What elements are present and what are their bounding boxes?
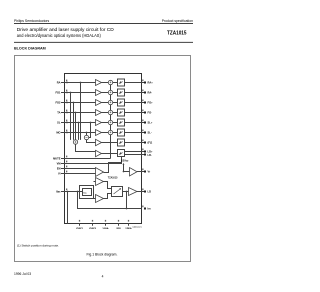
svg-text:(F)1: (F)1: [148, 141, 153, 145]
output stage box row 3: [118, 99, 125, 106]
svg-text:LD: LD: [148, 190, 152, 194]
pin square row 7: [144, 142, 146, 144]
input pin line row 2 (FO1): [61, 92, 96, 94]
op-amp triangle row 1: [96, 80, 102, 86]
svg-text:(1) Switch position during mu: (1) Switch position during mute.: [17, 244, 59, 248]
wire circle to output stage row 5: [113, 122, 118, 124]
wire box to pin row 1: [125, 82, 145, 84]
output stage box row 5: [118, 119, 125, 126]
svg-text:MBK615: MBK615: [133, 226, 143, 229]
wire T4 input stub: [93, 198, 96, 200]
op-amp T4 (monitor amp): [96, 195, 104, 203]
input pin line row 5 (SL): [61, 122, 96, 124]
wire switch to output amp T5: [123, 191, 129, 193]
op-amp T3 (laser error amp): [96, 178, 104, 186]
svg-text:VSSA: VSSA: [103, 227, 109, 230]
svg-text:VDD: VDD: [116, 228, 121, 230]
supply pin VSSP2: [92, 224, 94, 226]
wire: row 1 drop to summing circle A: [80, 83, 82, 140]
svg-text:TZA1015: TZA1015: [108, 176, 118, 179]
svg-text:FO1: FO1: [55, 91, 61, 95]
pin square row 3: [144, 102, 146, 104]
switch arrowhead: [119, 188, 121, 190]
wire box to pin row 7: [125, 142, 145, 144]
IC block TZA1015 outline: [65, 74, 142, 224]
supply pin VDD: [118, 224, 120, 226]
wire triangle to gain circle row 1: [102, 82, 109, 84]
output stage box row 2: [118, 89, 125, 96]
pin square row 6: [144, 132, 146, 134]
gain-control circle row 4: [108, 110, 112, 114]
svg-text:MO: MO: [56, 131, 60, 135]
wire circle to output stage row 4: [113, 112, 118, 114]
junction dot T2 input: [123, 171, 125, 173]
summing circle A: [73, 140, 77, 144]
tee junction dot row 4: [75, 112, 77, 114]
laser regulator outer loop: [80, 186, 94, 199]
junction dot row5 right tee: [90, 122, 92, 124]
op-amp triangle row 6: [96, 130, 102, 136]
supply pin VSSA: [105, 224, 107, 226]
svg-text:RA+: RA+: [148, 81, 154, 85]
svg-text:Vl: Vl: [58, 172, 61, 176]
tee junction dot row 5: [78, 122, 80, 124]
gain-control circle row 1: [108, 80, 112, 84]
input pin line row 1 (RA): [61, 82, 96, 84]
wire current-sense feedback down: [78, 192, 142, 209]
pin number inside row 2: [66, 90, 67, 92]
wire row5 tee down to circle B: [89, 123, 91, 138]
header rule bottom: [14, 41, 193, 44]
op-amp triangle row 5: [96, 120, 102, 126]
header rule top: [14, 22, 193, 25]
gain control bus (vertical through circles): [110, 85, 112, 159]
supply pin VDDA: [128, 224, 130, 226]
wire box to pin row 4: [125, 112, 145, 114]
output stage box row 7: [118, 139, 125, 146]
wire MUTE pin to gain bus: [61, 158, 111, 160]
wire box to pin row 3: [125, 102, 145, 104]
svg-text:VDDA: VDDA: [125, 227, 132, 230]
wire box to pin row 5: [125, 122, 145, 124]
op-amp triangle row 4: [96, 110, 102, 116]
wire: row 2 drop to summing circle A: [70, 93, 72, 140]
laser box: [83, 189, 92, 196]
svg-text:TA: TA: [57, 111, 60, 115]
svg-text:VSSP1: VSSP1: [76, 228, 84, 230]
wire T1 output to half-VDD node: [104, 163, 122, 173]
svg-text:FO2: FO2: [55, 101, 61, 105]
wire circle B to driver row 7: [87, 140, 96, 143]
gain-control circle row 6: [108, 130, 112, 134]
pin square row 4: [144, 112, 146, 114]
svg-text:SL+: SL+: [148, 121, 153, 125]
wire circle to output stage row 3: [113, 102, 118, 104]
svg-text:Drive amplifier and laser supp: Drive amplifier and laser supply circuit…: [17, 27, 114, 33]
wire VM pin to mute stage row 8: [61, 157, 122, 164]
gain-control circle row 3: [108, 100, 112, 104]
wire Vlas pin to op-amp T1: [61, 173, 96, 175]
svg-text:Vr: Vr: [148, 170, 151, 174]
wire EN pin to op-amp T1: [61, 168, 96, 170]
svg-text:RA: RA: [57, 81, 61, 85]
pin number inside row 4: [66, 110, 67, 112]
svg-text:Philips Semiconductors: Philips Semiconductors: [14, 19, 50, 23]
pin square Imon: [144, 208, 146, 210]
wire triangle to gain circle row 4: [102, 112, 109, 114]
wire node down to sense line: [126, 192, 128, 209]
tee junction dot row 1: [80, 82, 82, 84]
svg-text:RA-: RA-: [148, 91, 153, 95]
junction dot at pin row 3: [66, 102, 68, 104]
output stage box row 4: [118, 109, 125, 116]
output stage box row 6: [118, 129, 125, 136]
junction dot at pin row 2: [66, 92, 68, 94]
pin number inside row 5: [66, 120, 67, 122]
wire circle to output stage row 2: [113, 92, 118, 94]
wire triangle to gain circle row 6: [102, 132, 109, 134]
wire circle to output stage row 6: [113, 132, 118, 134]
svg-text:and electro/dynamic optical sy: and electro/dynamic optical systems (HDA…: [17, 33, 101, 39]
wire Ilaser down to substrate rail: [67, 192, 69, 224]
op-amp T1 (laser control): [96, 168, 104, 177]
pin number outside row 3: [142, 100, 143, 102]
op-amp T2 (Vref buffer): [130, 168, 138, 177]
pin number outside row 5: [142, 120, 143, 122]
output stage box row 1: [118, 79, 125, 86]
pin number inside row 3: [66, 100, 67, 102]
input pin line row 3 (FO2): [61, 102, 96, 104]
junction dot row6 drop: [86, 132, 88, 134]
svg-text:1996 Jul 03: 1996 Jul 03: [14, 272, 31, 276]
op-amp triangle row 2: [96, 90, 102, 96]
pin number inside row 1: [66, 80, 67, 82]
wire T2 to Vref pin: [137, 171, 145, 173]
pin number outside row 2: [142, 90, 143, 92]
wire: row 5 drop to summing circle A: [78, 123, 80, 140]
wire: row 3 drop to summing circle A: [73, 103, 75, 140]
wire T4 output to switch: [104, 194, 112, 199]
svg-text:SL: SL: [57, 121, 61, 125]
pin square LD: [144, 191, 146, 193]
pin number outside row 4: [142, 110, 143, 112]
svg-text:TZA1015: TZA1015: [167, 30, 187, 36]
svg-text:FO+: FO+: [148, 101, 154, 105]
svg-text:4: 4: [102, 275, 104, 279]
svg-text:LD-: LD-: [148, 153, 152, 157]
output stage box row 8: [118, 150, 125, 157]
svg-text:Fig.1 Block diagram.: Fig.1 Block diagram.: [87, 253, 118, 257]
switch box SB: [112, 187, 123, 197]
input pin line row 6 (MO): [61, 132, 96, 134]
pin number outside row 6: [142, 130, 143, 132]
input pin line row 4 (TA): [61, 112, 96, 114]
wire: row 4 drop to summing circle A: [75, 113, 77, 140]
op-amp T5 (laser driver): [129, 188, 138, 196]
pin square row 5: [144, 122, 146, 124]
wire box to pin row 2: [125, 92, 145, 94]
wire triangle to gain circle row 5: [102, 122, 109, 124]
gain-control circle row 5: [108, 120, 112, 124]
pin square row 1: [144, 82, 146, 84]
svg-text:VSSP2: VSSP2: [89, 228, 97, 230]
half-VDD supply arrow: [123, 164, 125, 172]
pin squares row 8: [144, 151, 146, 153]
wire triangle to output stage row 7: [102, 142, 118, 144]
svg-text:Ilas: Ilas: [56, 190, 61, 194]
wire row6 to summing circle B: [86, 133, 88, 136]
op-amp triangle row 3: [96, 100, 102, 106]
wire to reference buffer T2: [124, 171, 130, 173]
wire T5 to LD pin: [137, 191, 145, 193]
wire triangle to gain circle row 2: [102, 92, 109, 94]
wire circle A to driver row 8: [76, 144, 96, 151]
op-amp triangle row 7: [96, 139, 102, 145]
wire box to pin row 6: [125, 132, 145, 134]
junction dot at pin row 4: [66, 112, 68, 114]
gain-control circle row 2: [108, 90, 112, 94]
svg-text:MUTE: MUTE: [53, 157, 61, 161]
wire box to pin row 8 lower: [125, 154, 145, 156]
pin square Vref: [144, 171, 146, 173]
pin number inside row 6: [66, 130, 67, 132]
wire T3 input stub: [94, 181, 96, 183]
svg-text:Product specification: Product specification: [162, 19, 193, 23]
op-amp triangle row 8: [96, 150, 102, 156]
figure frame: [15, 56, 191, 262]
wire triangle to output stage row 8: [102, 153, 118, 155]
svg-text:LD+: LD+: [148, 149, 153, 153]
pin square row 2: [144, 92, 146, 94]
wire Ilaser pin to laser box: [61, 191, 83, 193]
wire T3 output to switch: [104, 182, 112, 189]
junction dot at pin row 6: [66, 132, 68, 134]
wire box to pin row 8 upper: [125, 151, 145, 153]
summing circle B: [84, 135, 88, 139]
junction dot Ilaser 1: [67, 191, 69, 193]
tee junction dot row 3: [73, 102, 75, 104]
tee junction dot row 2: [70, 92, 72, 94]
pin number outside row 1: [142, 80, 143, 82]
svg-text:EN: EN: [57, 167, 61, 171]
svg-text:FO-: FO-: [148, 111, 153, 115]
junction dot Ilaser 2: [77, 191, 79, 193]
junction dot laser output node: [126, 191, 128, 193]
junction dot at pin row 5: [66, 122, 68, 124]
supply pin VSSP1: [79, 224, 81, 226]
svg-text:1/2VDD: 1/2VDD: [121, 159, 129, 162]
svg-text:VM: VM: [57, 162, 61, 166]
junction dot sense line: [126, 208, 128, 210]
wire circle to output stage row 1: [113, 82, 118, 84]
svg-text:BLOCK DIAGRAM: BLOCK DIAGRAM: [14, 46, 46, 50]
wire triangle to gain circle row 3: [102, 102, 109, 104]
svg-text:SL-: SL-: [148, 131, 152, 135]
junction dot at pin row 1: [66, 82, 68, 84]
